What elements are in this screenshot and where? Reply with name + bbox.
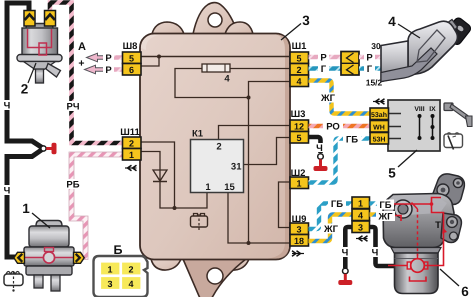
internal wire: К1-2 to Ш3-12 [219, 126, 291, 140]
svg-text:15/2: 15/2 [366, 78, 383, 88]
svg-text:РБ: РБ [66, 180, 79, 191]
switch 5 pin 53ah [370, 108, 389, 120]
svg-text:53ah: 53ah [371, 111, 387, 119]
washer pump 2 [17, 11, 62, 84]
svg-text:1: 1 [129, 150, 134, 160]
internal wire: Ш11-1 branch through diode [141, 152, 175, 209]
wire label Ч (Ш3-5 ground) [314, 143, 325, 154]
wire label Р (upper stub) [103, 53, 114, 65]
wire label Ч (lower) [1, 185, 13, 197]
svg-text:WH: WH [373, 125, 385, 132]
svg-text:2: 2 [296, 65, 301, 75]
svg-text:Р: Р [105, 65, 112, 76]
svg-text:РО: РО [326, 122, 340, 133]
motor connector pin 4 [352, 209, 370, 221]
motor connector pin 1 [352, 197, 370, 209]
svg-text:А: А [78, 41, 86, 53]
svg-text:30: 30 [371, 41, 381, 51]
svg-text:4: 4 [388, 14, 396, 29]
wire label ГБ (to switch 5) [343, 134, 361, 146]
svg-text:Ч: Ч [316, 143, 323, 154]
wire label РЧ [64, 101, 82, 113]
ground bolt (red) for motor [338, 274, 352, 285]
item label 3 pointer [281, 13, 310, 40]
item label 1 pointer [22, 201, 50, 228]
wire label ЖГ (left of motor pin 3) [321, 224, 341, 236]
chassis ground icon inside block [191, 214, 208, 233]
svg-text:53H: 53H [373, 137, 386, 144]
wiper arm icon [444, 103, 472, 127]
wire Р arrow to Ш8-6 [105, 67, 123, 71]
wire ЖГ from Ш9-18 to motor pin 4 [309, 215, 353, 242]
svg-text:6: 6 [129, 65, 134, 75]
svg-text:1: 1 [107, 265, 112, 275]
connector Ш1 [290, 41, 309, 87]
switch unit 5 [388, 100, 440, 151]
wire Ч from pump 2 to body ground [7, 3, 46, 257]
connector continuation mark below Ш9 [292, 251, 304, 257]
svg-text:Ч: Ч [4, 101, 11, 112]
node A arrows (washer feed) [78, 41, 105, 74]
fuse 4 [202, 64, 230, 85]
wire Ч from Ш3-5 to ground [309, 137, 324, 159]
svg-text:12: 12 [294, 122, 304, 132]
internal wire: К1-15 to Ш9-18 [228, 193, 290, 244]
internal wire: branch to Ш8-6 [141, 55, 161, 67]
ground bolt (red) for Ш3-5 [314, 159, 328, 171]
svg-text:15: 15 [224, 182, 235, 193]
svg-text:Р: Р [105, 53, 112, 64]
item label 6 pointer [440, 269, 469, 297]
wire Р from inline connector to switch 4 [359, 55, 385, 59]
svg-text:4: 4 [128, 279, 133, 289]
ignition switch 4 [381, 16, 472, 81]
wire Ч right leg from motor pin 3 to motor body [370, 227, 397, 266]
svg-text:1: 1 [22, 201, 30, 216]
motor connector pin 3 [352, 221, 370, 233]
svg-text:3: 3 [302, 13, 310, 28]
svg-text:6: 6 [461, 284, 469, 297]
wire label Г (left of connector) [318, 64, 329, 76]
connector continuation mark below motor connector [356, 236, 368, 242]
motor internal circuit (red) [388, 198, 447, 282]
svg-text:2: 2 [129, 139, 134, 149]
wire label ГБ (at motor pin 1) [377, 200, 394, 212]
wire Р from Ш1-5 to inline connector [309, 55, 342, 59]
svg-text:4: 4 [358, 211, 363, 221]
svg-text:5: 5 [129, 54, 134, 64]
inline connector (pair) [341, 52, 359, 76]
wire РБ from Ш11-1 to pump 1 [72, 155, 124, 258]
wire Г from inline connector to switch 4 [359, 66, 385, 70]
svg-text:4: 4 [224, 74, 230, 85]
washer pump 1 [14, 221, 84, 292]
washer reservoir icon [4, 272, 23, 292]
wire Р arrow to Ш8-5 [106, 55, 123, 59]
internal wire: К1-1 to ground node [175, 193, 208, 209]
svg-text:Ш8: Ш8 [123, 41, 138, 52]
switch 5 pin WH [370, 121, 389, 133]
svg-text:Р: Р [320, 53, 327, 64]
switch 5 pin 53H [370, 133, 389, 145]
svg-text:Ч: Ч [4, 186, 11, 197]
svg-text:4: 4 [296, 77, 301, 87]
svg-text:18: 18 [294, 236, 304, 246]
svg-text:1: 1 [205, 182, 211, 193]
svg-text:3: 3 [358, 223, 363, 233]
wiper motor 6 body [383, 174, 464, 294]
connector continuation mark below Ш11 [125, 165, 137, 171]
svg-text:+: + [78, 58, 84, 70]
svg-text:3: 3 [296, 225, 301, 235]
wire ГБ stub into motor [370, 201, 385, 205]
svg-text:Р: Р [366, 53, 373, 64]
svg-text:31: 31 [231, 162, 242, 173]
item label 4 pointer [388, 14, 420, 38]
internal wire: К1-31 to Ш3-5 [244, 138, 291, 165]
wire label РО [323, 121, 343, 133]
windshield washer icon [444, 133, 463, 150]
wire label ЖГ [318, 93, 338, 105]
svg-text:1: 1 [358, 199, 363, 209]
wire label РБ [64, 179, 82, 191]
mounting block 3 body [140, 3, 290, 297]
wire РЧ from pump 2 to Ш11-2 [50, 3, 123, 144]
internal wire: vertical feed bus to Ш1-4 / К1-15 / Ш9-18 [247, 82, 291, 246]
svg-text:ЖГ: ЖГ [323, 224, 339, 235]
item label 2 [21, 63, 36, 97]
connector Ш9 [290, 214, 309, 246]
svg-text:ГБ: ГБ [379, 200, 391, 211]
svg-text:Ш1: Ш1 [292, 41, 308, 52]
wire label ГБ (left of motor pin 1) [328, 199, 346, 211]
svg-text:5: 5 [296, 133, 301, 143]
svg-text:Ш3: Ш3 [291, 109, 306, 120]
svg-text:3: 3 [107, 279, 112, 289]
wire Г from Ш1-2 to inline connector [309, 66, 342, 70]
body ground bolt (red) for Ч wires [46, 143, 56, 154]
connector Ш11 [120, 127, 141, 160]
svg-text:2: 2 [128, 265, 133, 275]
wire label Р (right of connector) [364, 52, 375, 64]
svg-text:2: 2 [216, 142, 221, 153]
wire label Р (lower stub) [103, 65, 114, 77]
wire label Ч (top) [1, 100, 13, 112]
wire label Ч (right motor leg) [369, 247, 381, 259]
svg-text:Т: Т [435, 220, 441, 231]
svg-text:Г: Г [367, 64, 373, 75]
connector Б [94, 243, 148, 297]
svg-text:ЖГ: ЖГ [320, 93, 336, 104]
diode VD [153, 170, 167, 182]
svg-text:VIII: VIII [414, 106, 424, 113]
svg-text:Г: Г [321, 64, 327, 75]
svg-text:Ч: Ч [342, 248, 349, 259]
connector continuation mark above 53ah [373, 99, 385, 105]
svg-text:ГБ: ГБ [346, 135, 358, 146]
wire Ч left leg from motor pin 3 to ground [343, 227, 353, 274]
wire ГБ from Ш9-3 to motor pin 1 [309, 204, 353, 230]
internal wire: Ш2-1 to Ш9-3 [279, 182, 291, 228]
connector Ш3 [290, 109, 309, 143]
wire ГБ from Ш2-1 to switch 5 pin 53H [309, 139, 371, 183]
svg-text:IX: IX [429, 106, 436, 113]
wire РО from Ш3-12 to switch 5 pin WH [309, 124, 371, 128]
wire label Р (left of connector) [318, 52, 329, 64]
connector Ш8 [123, 41, 142, 75]
wire ЖГ stub into motor [370, 212, 385, 216]
wire ЖГ from Ш1-4 to switch 5 pin 53ah [309, 81, 371, 114]
svg-text:К1: К1 [192, 129, 204, 140]
relay К1 [191, 129, 244, 194]
internal wire: fuse line Ш1-2 through fuse 4 [175, 69, 290, 98]
svg-text:ГБ: ГБ [331, 199, 343, 210]
item label 5 pointer [388, 150, 417, 181]
svg-text:5: 5 [296, 54, 301, 64]
svg-text:Ч: Ч [372, 248, 379, 259]
svg-text:ЖГ: ЖГ [378, 212, 394, 223]
internal wire: Ш11-2 branch [141, 142, 177, 210]
wire label Ч (left motor leg) [339, 247, 351, 259]
svg-text:2: 2 [21, 82, 29, 97]
connector Ш2 [290, 168, 309, 189]
wire label ЖГ (at motor pin 4) [376, 211, 395, 223]
svg-text:5: 5 [388, 166, 396, 181]
svg-text:РЧ: РЧ [66, 102, 79, 113]
svg-text:1: 1 [296, 179, 301, 189]
internal wire: net Ш8-5 to Ш1-5 (lid line) [141, 56, 289, 58]
wire label Г (right of connector) [364, 64, 375, 76]
